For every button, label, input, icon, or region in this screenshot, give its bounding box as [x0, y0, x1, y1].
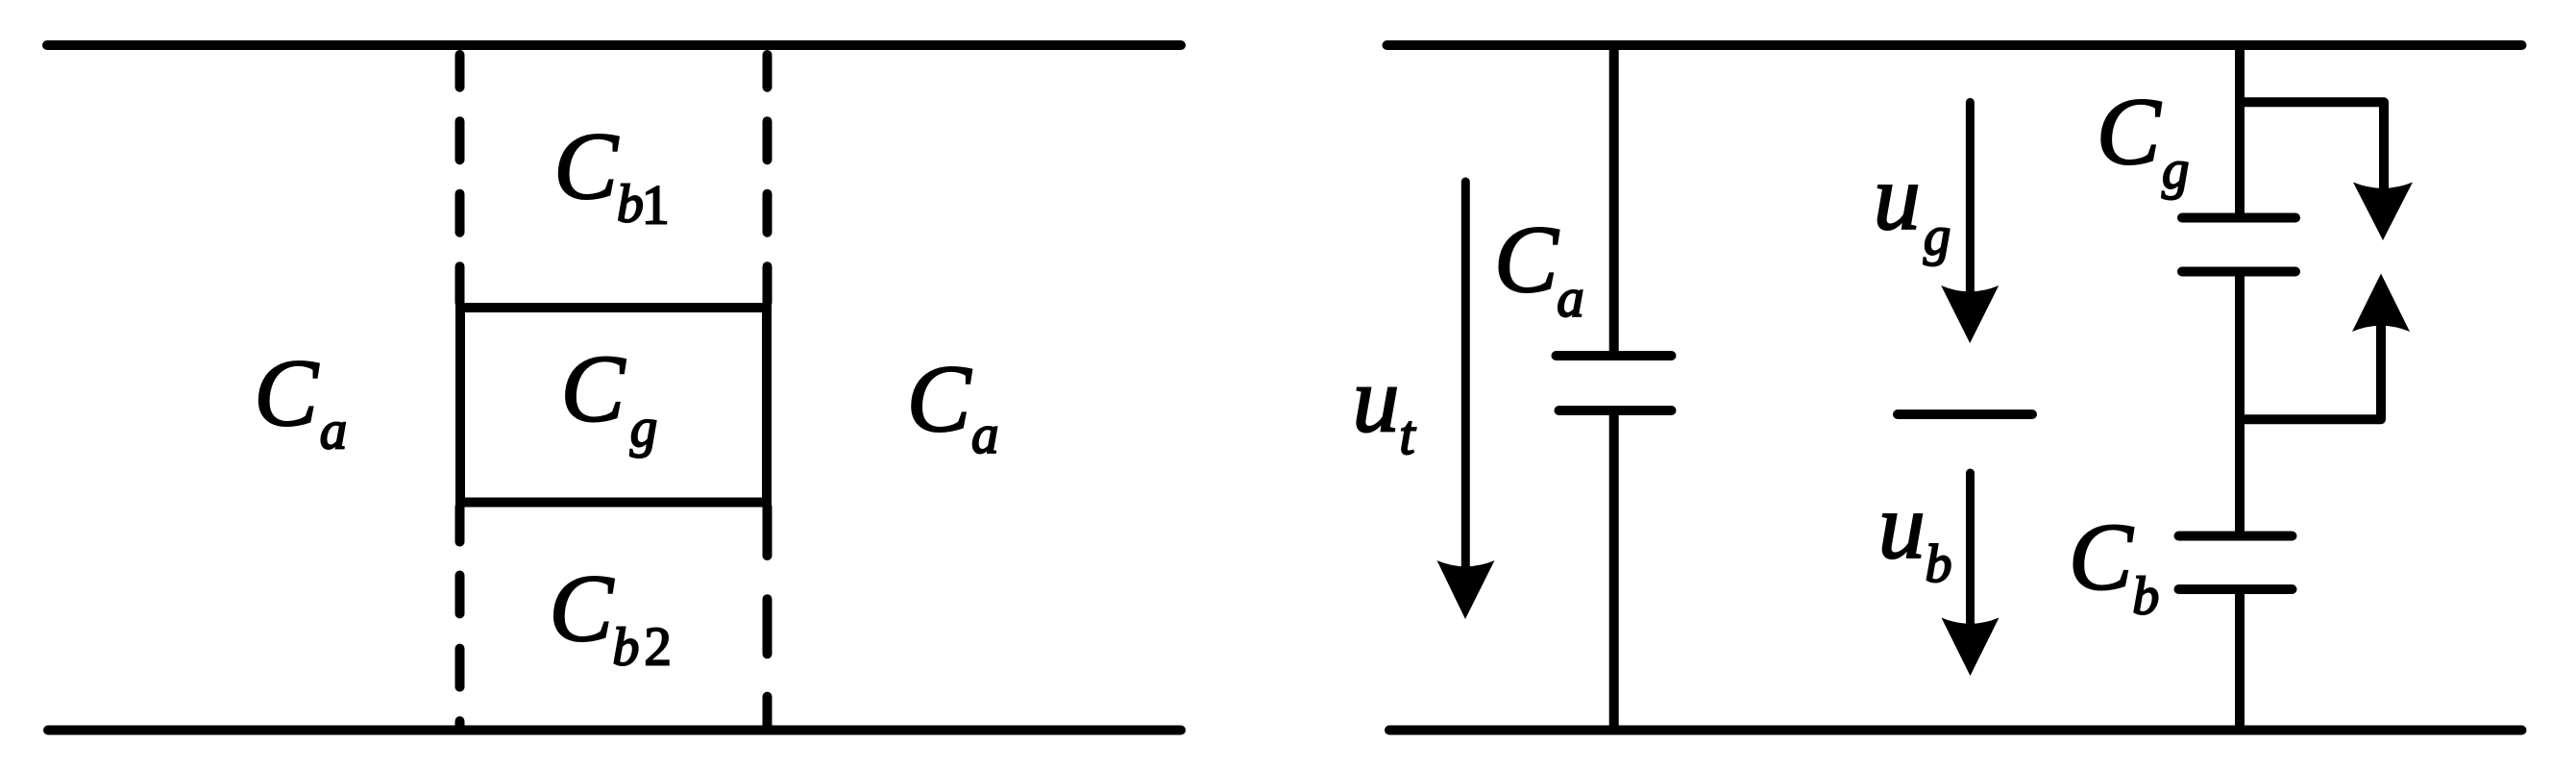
node wire Ca branch lower: [1609, 410, 1619, 731]
svg-text:b: b: [1926, 534, 1952, 594]
svg-text:u: u: [1878, 475, 1926, 579]
svg-text:g: g: [1924, 206, 1951, 266]
svg-text:b: b: [612, 618, 639, 678]
current loop wire top: [2240, 102, 2384, 187]
svg-text:C: C: [2069, 504, 2134, 610]
svg-text:C: C: [549, 555, 614, 661]
svg-text:C: C: [553, 112, 619, 219]
svg-text:u: u: [1874, 146, 1921, 250]
svg-text:g: g: [630, 398, 658, 459]
svg-text:C: C: [561, 335, 626, 442]
svg-text:g: g: [2162, 139, 2190, 200]
svg-text:1: 1: [642, 174, 670, 236]
node wire between Cg and Cb: [2235, 272, 2245, 532]
svg-text:t: t: [1399, 404, 1416, 466]
current loop arrow up head: [2352, 274, 2410, 333]
capacitor Cb top plate: [2179, 532, 2293, 541]
capacitor Cg top plate: [2182, 213, 2295, 223]
svg-text:b: b: [2132, 567, 2159, 627]
node wire Cg branch upper: [2235, 45, 2245, 213]
top bus line (left diagram): [47, 40, 1181, 50]
dashed boundary right lower run: [763, 507, 773, 727]
svg-text:C: C: [254, 339, 319, 446]
current loop wire bottom: [2240, 327, 2381, 419]
svg-text:C: C: [907, 345, 972, 452]
dashed boundary right upper run: [763, 55, 773, 303]
current loop arrow down head: [2353, 183, 2413, 241]
svg-text:b: b: [617, 174, 644, 234]
voltage arrow ug shaft: [1966, 102, 1975, 293]
capacitor Ca top plate: [1557, 351, 1672, 360]
voltage arrow ub head: [1942, 618, 1999, 677]
svg-text:u: u: [1353, 348, 1400, 452]
capacitor Cg bottom plate: [2182, 267, 2295, 277]
voltage divider bar: [1898, 410, 2032, 419]
bottom bus line (right schematic): [1389, 726, 2522, 735]
capacitor Ca bottom plate: [1559, 406, 1672, 415]
dashed boundary left lower run: [455, 507, 465, 728]
bottom bus line (left diagram): [48, 726, 1181, 735]
svg-text:C: C: [2097, 78, 2162, 185]
node wire Ca branch upper: [1609, 45, 1619, 352]
dashed boundary left upper run: [455, 55, 465, 303]
svg-text:a: a: [320, 400, 348, 460]
svg-text:a: a: [1557, 268, 1584, 329]
svg-text:a: a: [971, 405, 999, 465]
svg-text:C: C: [1494, 206, 1559, 312]
voltage arrow ub shaft: [1966, 473, 1975, 625]
voltage arrow ut head: [1437, 560, 1495, 619]
svg-text:2: 2: [644, 617, 672, 678]
voltage arrow ug head: [1941, 286, 1999, 343]
node wire Cb branch lower: [2235, 589, 2245, 731]
top bus line (right schematic): [1387, 40, 2522, 50]
voltage arrow ut shaft: [1461, 182, 1470, 567]
gap capacitance rectangle: [460, 308, 767, 503]
capacitor Cb bottom plate: [2179, 584, 2293, 594]
